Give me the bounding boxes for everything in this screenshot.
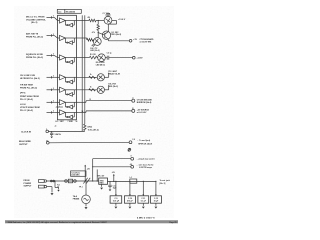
svg-text:2: 2 <box>53 34 54 36</box>
svg-text:+13.8V: +13.8V <box>137 58 144 60</box>
svg-text:To B+ (Sh.2): To B+ (Sh.2) <box>88 130 99 132</box>
svg-text:47kΩ: 47kΩ <box>87 125 92 128</box>
svg-text:w/ LO 8.2V: w/ LO 8.2V <box>137 112 147 114</box>
svg-text:7 GND: 7 GND <box>68 121 74 123</box>
svg-text:C-10: C-10 <box>128 198 132 200</box>
svg-text:← To and (out): ← To and (out) <box>137 139 151 142</box>
svg-text:CLOCK IN: CLOCK IN <box>21 132 32 134</box>
svg-text:LT/SCP HIGH FROM: LT/SCP HIGH FROM <box>20 107 40 109</box>
svg-text:1k: 1k <box>90 74 92 76</box>
svg-text:4.000 MHz: 4.000 MHz <box>71 174 79 177</box>
svg-text:2: 2 <box>53 76 54 78</box>
svg-text:MIC LO V.C. FROM: MIC LO V.C. FROM <box>26 17 45 19</box>
svg-text:VOLUME CONTROL: VOLUME CONTROL <box>26 20 46 22</box>
svg-text:C-9: C-9 <box>114 198 117 200</box>
svg-text:Page 25: Page 25 <box>169 222 176 224</box>
svg-text:10: 10 <box>132 108 134 110</box>
svg-text:U-1 : 7407: U-1 : 7407 <box>55 120 64 123</box>
svg-text:0.1 µF: 0.1 µF <box>141 201 147 203</box>
svg-text:To ant. jack: To ant. jack <box>160 179 171 182</box>
svg-text:2: 2 <box>53 101 54 103</box>
svg-text:R-9 150: R-9 150 <box>90 54 96 56</box>
svg-text:18: 18 <box>82 111 84 113</box>
svg-text:SUPPLY: SUPPLY <box>24 186 32 188</box>
svg-text:2: 2 <box>53 54 54 56</box>
svg-text:+13.8 V: +13.8 V <box>118 19 126 21</box>
svg-text:w/ 13.8V TRX: w/ 13.8V TRX <box>140 42 153 44</box>
svg-text:LO HI: LO HI <box>20 104 26 106</box>
svg-text:8.2V/TX lamps: 8.2V/TX lamps <box>139 167 152 169</box>
svg-text:17: 17 <box>132 98 134 100</box>
svg-text:PLL IC (Sh.2): PLL IC (Sh.2) <box>20 110 33 112</box>
svg-text:RELAY 14.4V: RELAY 14.4V <box>108 72 120 75</box>
svg-text:[Sh. 2]: [Sh. 2] <box>160 183 166 185</box>
svg-text:2: 2 <box>53 88 54 90</box>
svg-text:+5: +5 <box>55 126 57 128</box>
svg-text:C-12: C-12 <box>154 198 158 200</box>
svg-text:U-1: U-1 <box>58 12 61 14</box>
svg-text:HI FROM PLL (Sh.2): HI FROM PLL (Sh.2) <box>20 78 40 80</box>
svg-text:CH 9 ONLY SW: CH 9 ONLY SW <box>20 75 35 77</box>
svg-text:T/R SW HIGH: T/R SW HIGH <box>20 85 34 87</box>
svg-text:15: 15 <box>89 99 91 101</box>
svg-text:PRINT HIGH FROM: PRINT HIGH FROM <box>20 96 39 98</box>
svg-text:L-1: L-1 <box>130 177 133 179</box>
svg-text:+5 (ALL): +5 (ALL) <box>56 105 64 108</box>
svg-text:← wire loom To the: ← wire loom To the <box>136 164 153 167</box>
svg-text:(Sh. 2): (Sh. 2) <box>31 22 38 24</box>
svg-text:1k: 1k <box>90 86 92 88</box>
svg-text:C-11: C-11 <box>141 198 145 200</box>
svg-text:MC145106: MC145106 <box>66 11 75 14</box>
svg-text:470 µF: 470 µF <box>127 200 134 203</box>
svg-text:(PTT): (PTT) <box>20 93 26 95</box>
svg-text:VR-1 5V: VR-1 5V <box>97 176 105 178</box>
svg-text:TP-1: TP-1 <box>79 186 83 188</box>
svg-text:POWER: POWER <box>24 183 32 185</box>
svg-text:LED (Sh.2): LED (Sh.2) <box>96 65 105 67</box>
svg-text:1k: 1k <box>57 186 59 188</box>
svg-text:→ plug & top socket: → plug & top socket <box>136 157 155 160</box>
svg-text:FROM PLL (Sh.2): FROM PLL (Sh.2) <box>26 57 43 59</box>
svg-text:8: 8 <box>131 156 132 158</box>
svg-text:C-9 1µ: C-9 1µ <box>107 52 112 54</box>
svg-text:BULK WIRE: BULK WIRE <box>19 141 31 143</box>
svg-text:LED (Sh.2): LED (Sh.2) <box>108 86 118 88</box>
svg-text:2: 2 <box>53 16 54 18</box>
svg-text:FRAME: FRAME <box>73 198 80 201</box>
svg-text:FROM PLL (Sh.2): FROM PLL (Sh.2) <box>26 36 43 38</box>
svg-text:C-8: C-8 <box>132 139 135 141</box>
svg-text:©2004 Radionics, Inc. (SKU 910: ©2004 Radionics, Inc. (SKU 910-3007). Al… <box>7 221 107 224</box>
svg-text:ANT. KEY HI: ANT. KEY HI <box>26 32 39 35</box>
svg-text:4 MHz 2 1/16×7 S: 4 MHz 2 1/16×7 S <box>137 217 155 220</box>
svg-text:FROM: FROM <box>24 180 30 182</box>
svg-text:1419 (Sh.2): 1419 (Sh.2) <box>111 33 121 36</box>
svg-text:BURROW (Sh.4): BURROW (Sh.4) <box>137 101 152 104</box>
svg-text:FROM PLL (Sh.2): FROM PLL (Sh.2) <box>20 87 37 89</box>
svg-text:LED (Sh.2): LED (Sh.2) <box>90 50 99 52</box>
svg-text:0.01 µF: 0.01 µF <box>113 201 120 203</box>
svg-text:2: 2 <box>53 111 54 113</box>
svg-text:SPKR JK JACK: SPKR JK JACK <box>138 142 153 145</box>
svg-text:OUTPUT: OUTPUT <box>19 144 28 146</box>
svg-text:SQUELCH HI SW: SQUELCH HI SW <box>26 54 43 56</box>
svg-text:PLL IC (Sh.2): PLL IC (Sh.2) <box>20 99 33 101</box>
